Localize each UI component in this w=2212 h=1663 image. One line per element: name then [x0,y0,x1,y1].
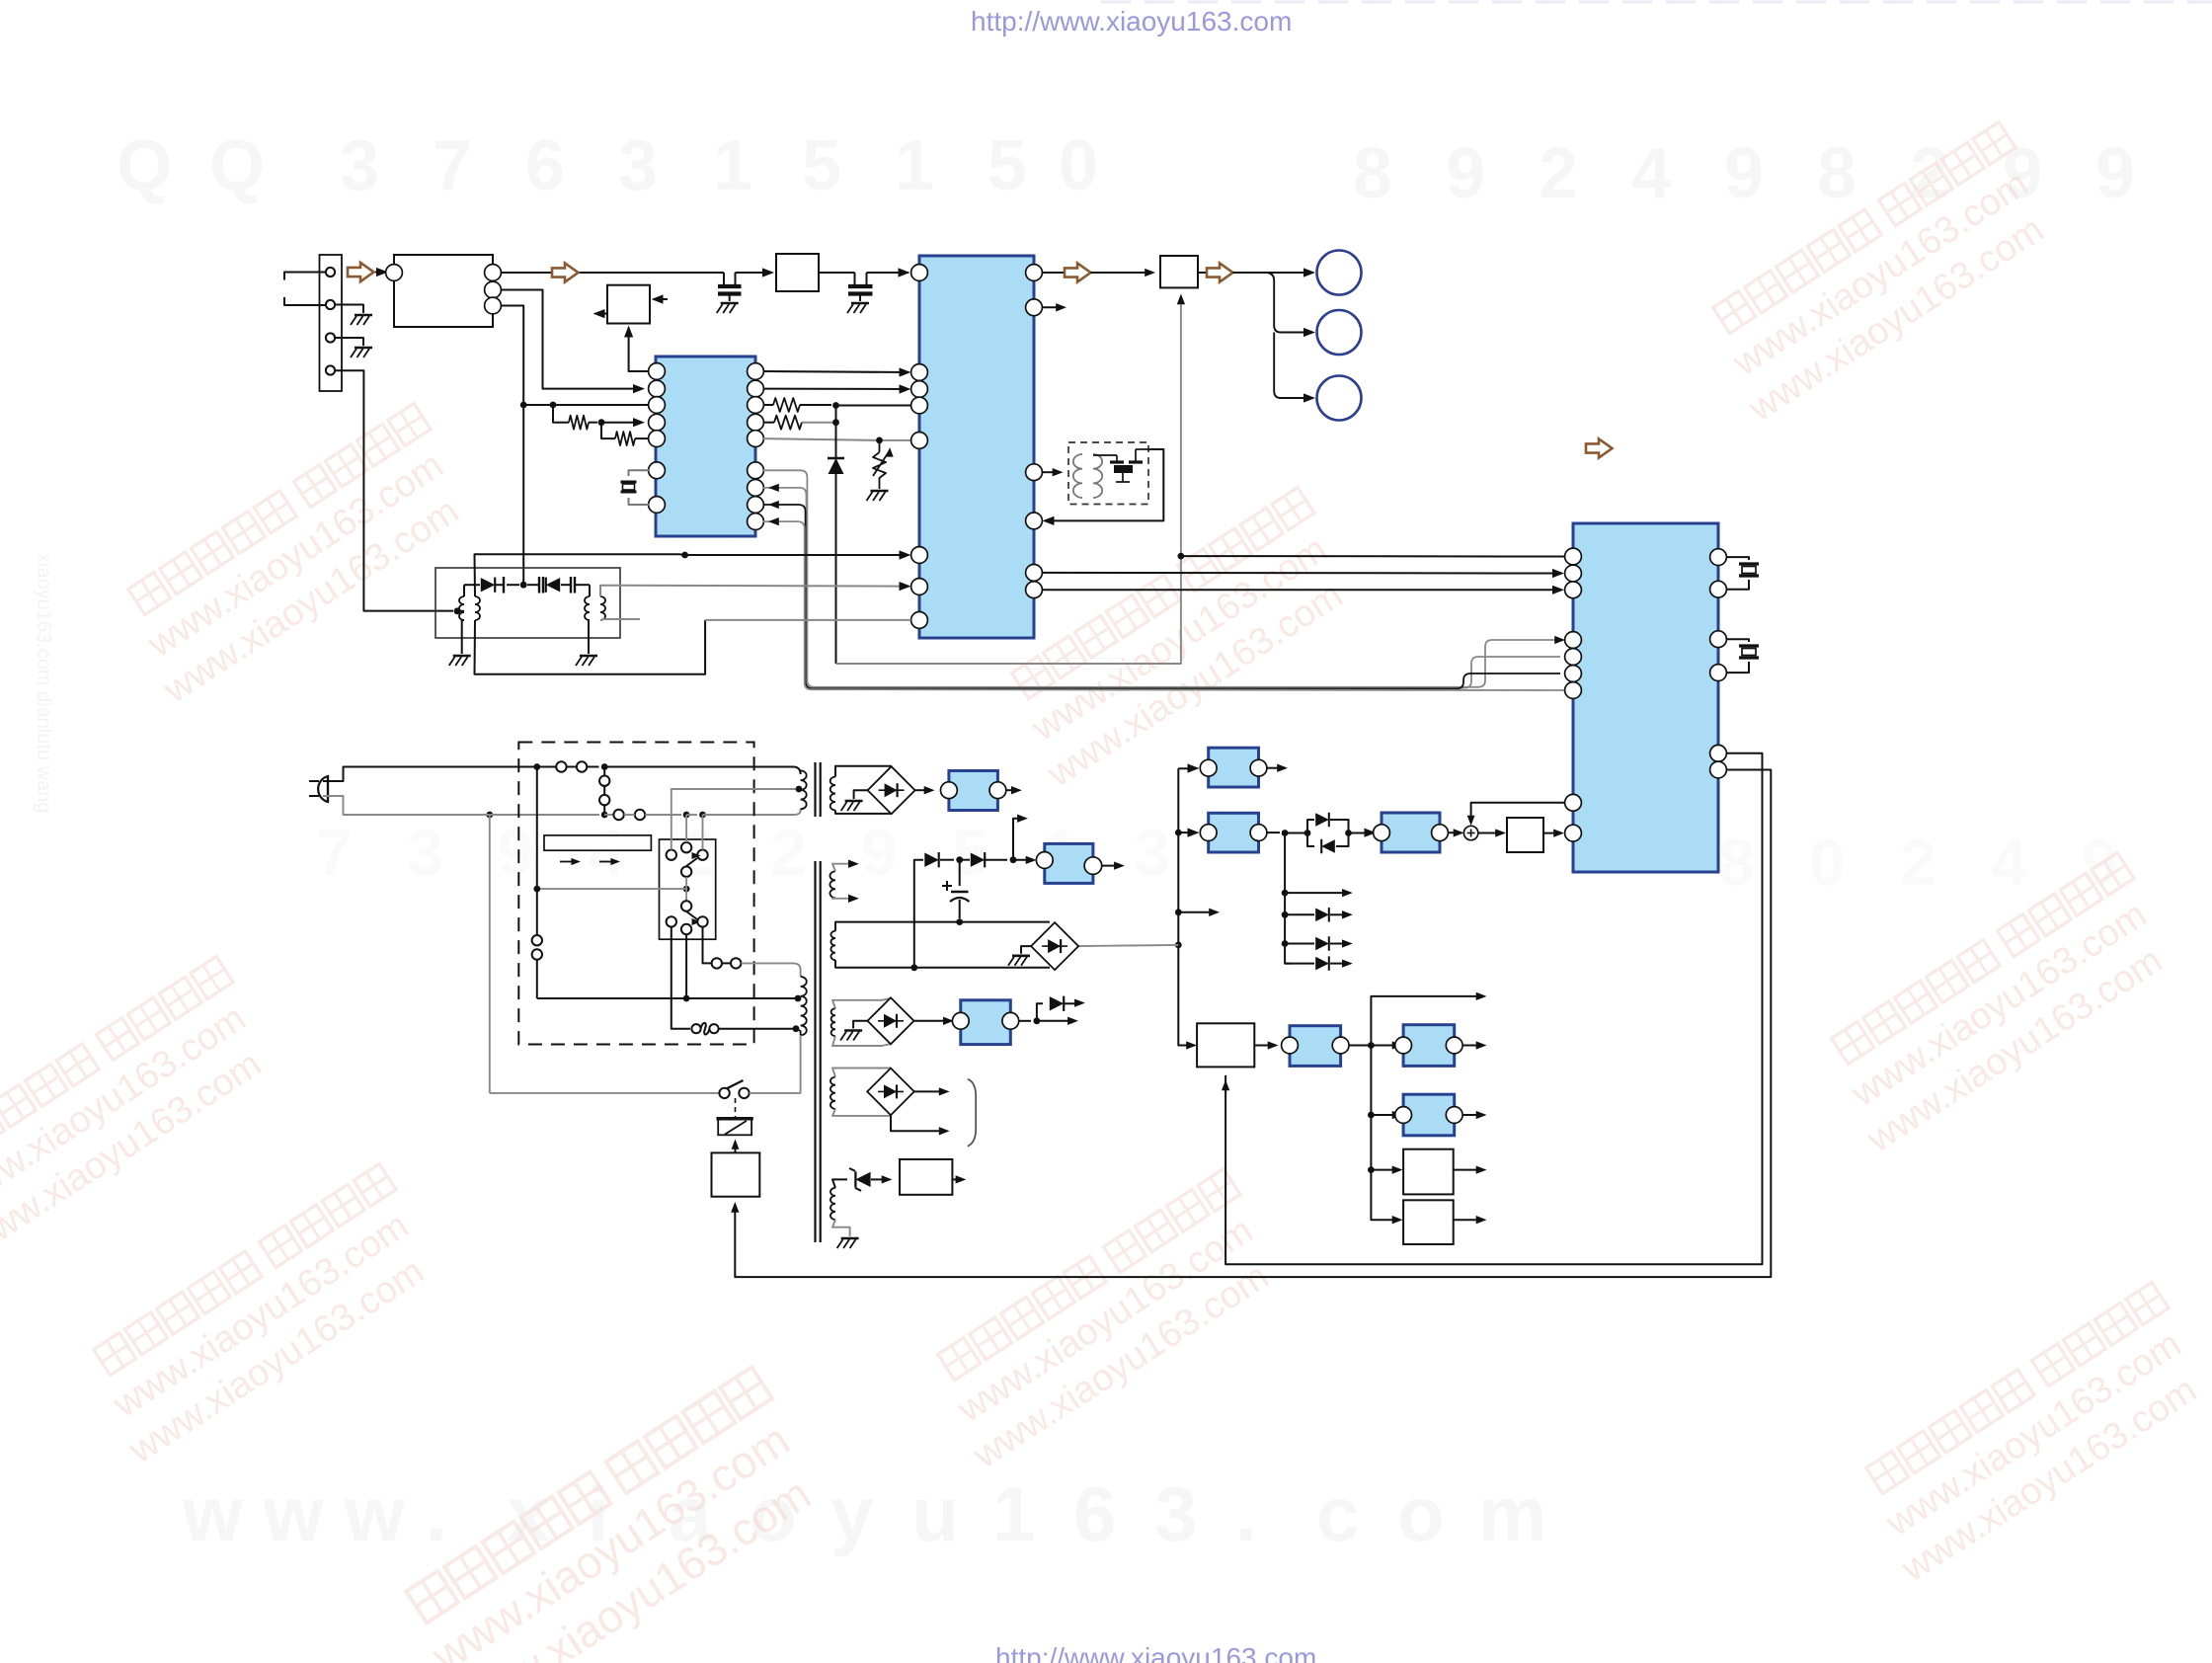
regulator RG4 [1290,1026,1341,1067]
reset feedback arrow [1224,1075,1226,1083]
wire U101 out1 main line [501,272,724,274]
wire U101 out2 to IC2 pin2 [501,290,640,389]
fan branch diode D305 [1285,963,1314,965]
svg-text:5: 5 [987,126,1027,205]
wire bus to IC2 pin3 [523,404,649,406]
selector bottom-right wire [703,927,712,964]
svg-text:.: . [1235,1470,1257,1557]
IC3 feedback loop inner [1225,753,1762,1264]
wire IC2 out2 to IC1 [763,388,906,390]
wire node to RG5 [1371,1045,1396,1047]
IC2 right pins [748,363,764,380]
node y561 [681,552,688,559]
node varistor tap [876,437,883,444]
wire IC1 to IC3 data1 [1042,572,1558,575]
regulator RG7 [949,771,998,811]
gray wire from rectifier [1078,945,1178,946]
T901 sec2 [829,871,835,898]
svg-text:y: y [830,1470,873,1557]
dist branch up arrow [1371,996,1480,1046]
W303 out arrow [1454,1169,1480,1171]
node dist2 [1368,1112,1375,1119]
watermark big digits row [117,126,2135,213]
jack branch wire [1267,273,1309,333]
node primary mid [683,995,690,1002]
regulator RG8 [1045,843,1093,883]
wire BR903 to RG9 [914,1020,948,1022]
watermark pink cluster 3 [991,488,1369,796]
node line2 a [486,812,493,819]
node mute-IC3 [1178,553,1185,560]
watermark pink cluster 2 [73,1164,450,1472]
svg-text:4: 4 [589,816,625,889]
BR904 bottom arrow [891,1115,943,1131]
connector J1 terminal strip [320,255,343,391]
U101 pin out1 [485,265,502,281]
node RG9 out [1034,1017,1041,1024]
ground C102 [851,302,869,305]
svg-text:6: 6 [525,126,565,205]
T901 sec3 [830,931,835,960]
IC1 left pins [911,265,928,281]
switch S901 [556,761,566,771]
watermark middle faint digits [316,816,2118,899]
T901 sec6 [830,1188,835,1220]
svg-text:4: 4 [1631,134,1671,213]
svg-text:xiaoyu163.com dianlutu wang: xiaoyu163.com dianlutu wang [33,553,54,814]
T901 sec4 [831,1008,835,1036]
system control IC3 [1573,523,1718,872]
switch to transformer [750,1035,801,1093]
selector top-left tap wire [671,789,796,850]
bridge BR902 [1031,922,1078,970]
U103 out arrow left [598,313,607,315]
node dist3 [1368,1166,1375,1173]
wire IC2 pin1 to U103 [629,329,649,371]
svg-text:8: 8 [1817,134,1856,213]
wire U102 to C102 [819,272,855,274]
resistor R103 IC2 out3 [763,404,773,406]
resistor R104 IC2 out4 [763,422,774,424]
antenna lead 1 [284,273,326,280]
node line1 selector [533,886,540,893]
node line1 a [533,763,540,770]
watermark pink cluster 4 [917,1169,1295,1477]
dist vertical [1371,1046,1396,1221]
ground RV101 [871,490,889,493]
T901 primary lower [801,977,807,1035]
T103 coils [1073,454,1082,498]
capacitor C901 [959,860,961,886]
diode D903 branch [1037,1003,1043,1021]
node bus stub [1175,909,1182,915]
U103 in arrow right [656,298,668,300]
T102 secondary to IC1 gray wire [600,586,906,596]
wire J1 pin4 to AM loop tap [335,370,453,610]
dashed voltage selector box [518,743,753,1045]
svg-text:m: m [1478,1470,1546,1557]
bus arrowhead into IC3 [1554,636,1565,644]
sec6 ground [832,1220,850,1236]
selector contacts bottom [667,916,676,926]
wire IC2 out1 to IC1 [763,371,906,372]
converter box W304 [1403,1200,1454,1244]
svg-text:2: 2 [770,816,807,889]
watermark pink cluster 7 [1846,1283,2212,1591]
watermark pink cluster 1 [108,404,485,712]
svg-text:1: 1 [713,126,752,205]
node line2 b [601,812,608,819]
RG1 out arrow [1267,767,1281,769]
svg-text:w: w [182,1470,243,1557]
zener D904 [855,1172,870,1187]
wire R101 to IC2 pin4 [601,422,640,424]
regulator RG9 [961,1000,1011,1045]
node sec3 bottom [910,964,917,971]
svg-text:9: 9 [2095,134,2135,213]
svg-text:.: . [426,1470,447,1557]
diode D901 [924,853,938,867]
gray wire R104 to diode rail [802,422,836,424]
gray wire to power switch [490,1092,720,1094]
wire bus to reg2 [1178,831,1193,833]
relay link dashed [735,1098,737,1117]
wire RG4 to node [1349,1045,1371,1047]
audio jack L [1317,251,1362,295]
node primary bottom [793,1025,800,1032]
AGC block U103 [607,285,650,324]
feedback loop to IC1 pin [1047,449,1163,520]
signal arrow A5 [1586,438,1613,457]
watermark pink cluster 6 [1811,853,2188,1161]
node R102 tap [598,419,605,426]
svg-text:2: 2 [1539,134,1578,213]
RG6 out arrow [1462,1114,1480,1116]
svg-text:http://www.xiaoyu163.com: http://www.xiaoyu163.com [971,6,1292,37]
ground C101 [721,302,739,305]
loop filter box W301 [1507,818,1543,852]
FM transformer T102 [585,596,590,620]
wire summing to filter box [1478,832,1500,834]
svg-text:2: 2 [1900,826,1936,899]
svg-text:9: 9 [1724,134,1764,213]
AM antenna filter box outline [435,568,620,638]
wire node to W303 [1371,1169,1396,1171]
diode D902 [971,853,985,867]
wire node to IC3 pin1 [1181,555,1564,557]
T101 tap node [454,607,461,614]
wire to reg3 [1349,832,1371,834]
node bus reg2 [1175,830,1182,836]
selector arm 2 [681,901,691,911]
wire corner to W304 [1392,1216,1403,1224]
wire W302 to RG4 [1254,1045,1272,1047]
resistor R101 [553,405,569,423]
watermark pink cluster 8 [386,1367,837,1663]
IC3 left pins [1565,548,1582,565]
svg-text:5: 5 [952,816,988,889]
feedthrough capacitor C102 [854,273,856,284]
svg-text:5: 5 [802,126,841,205]
node diode rail mid [832,419,839,426]
selector arrows [560,861,576,863]
node filter mid [520,582,527,589]
T101 primary ground [462,620,464,654]
resistor R102 [601,423,615,438]
primary feed line [537,997,798,999]
node diode rail top [832,402,839,409]
output mute box U104 [1160,256,1198,287]
svg-text:http://www.xiaoyu163.com: http://www.xiaoyu163.com [995,1642,1316,1663]
T901 primary upper [801,770,807,809]
Q101 transistor [1093,454,1117,456]
svg-text:3: 3 [407,816,443,889]
antiparallel diodes D301 D302 [1307,820,1314,833]
svg-text:0: 0 [1809,826,1846,899]
wire bus top to reg1 [1178,767,1193,769]
fan branch diode D304 [1285,943,1314,945]
svg-text:c: c [1316,1470,1359,1557]
tuning PLL IC2 [656,356,755,536]
node chain right [1010,856,1017,863]
regulator RG1 [1209,748,1259,787]
svg-text:o: o [1397,1470,1445,1557]
switch S904 [532,935,542,945]
diode fan vertical [1285,833,1292,964]
bridge BR904 [867,1069,914,1116]
RG5 out arrow [1462,1045,1480,1047]
svg-text:3: 3 [340,126,379,205]
node dist [1368,1042,1375,1049]
wire BR901 to RG7 [915,789,928,791]
svg-text:9: 9 [861,816,898,889]
ground at J1 pin2 [335,305,363,314]
crystal X301 [1726,557,1749,560]
selector top wires from line2 [685,815,687,842]
IC3 right pins [1710,549,1727,566]
node chain mid [956,856,963,863]
T102 primary ground [589,620,590,654]
wire to jack 1 [1233,272,1310,274]
T901 sec5 [830,1077,835,1109]
wire W301 to IC3 [1543,832,1558,834]
switch S905 [712,958,722,968]
svg-text:9: 9 [2082,826,2118,899]
chain branch up arrow [1013,819,1021,860]
svg-text:3: 3 [618,126,658,205]
B+ bus vertical [1178,768,1191,1045]
wire IC1 to det coil [1042,471,1058,473]
wire IC1 to IC3 data2 [1042,589,1558,591]
bridge BR901 [891,765,893,768]
IC3 feedback loop outer [735,770,1771,1278]
bus arrowheads into IC2 [768,484,779,492]
gray line2 drop [489,815,491,1093]
svg-text:Q: Q [117,126,172,205]
node on pin3 bus [520,402,527,409]
bridge BR903 [868,997,914,1044]
fuse F901 [691,1024,700,1033]
T102 secondary stub [600,619,640,620]
svg-text:9: 9 [498,816,534,889]
node R101 tap [550,402,557,409]
crystal X101 [629,470,650,476]
gray wire to selector [537,888,686,890]
diode D103 [546,578,560,592]
detector dashed box T103 [1068,442,1148,505]
RG9 out arrow [1037,1020,1071,1022]
W304 out arrow [1454,1219,1480,1221]
diode chain vertical [914,860,923,968]
node line2 d [699,812,706,819]
BR901 ground [854,790,868,799]
relay drive arrow [735,1144,737,1152]
group bracket [968,1079,976,1147]
svg-text:0: 0 [1059,126,1098,205]
T901 core lower [814,861,816,1242]
tuner block U101 [394,255,493,327]
wire chain to RG8 [1013,859,1030,861]
AM loop transformer T101 [459,596,464,620]
svg-text:7: 7 [316,816,353,889]
watermark pink cluster 9 [0,957,287,1265]
selector contacts top [667,850,676,860]
signal arrow A4 [1198,272,1207,274]
relay RY901 [718,1119,751,1136]
watermark top edge dashes [1101,1,2212,4]
U101 pin in [386,265,403,281]
signal arrow A3 [1042,272,1065,274]
regulator RG3 [1382,813,1440,852]
node line2 c [683,812,690,819]
audio jack SW [1317,376,1362,421]
BR902 ground [1021,946,1031,954]
node bus supply in [1175,942,1182,949]
U101 pin out3 [485,297,502,314]
BR903 ground [853,1021,867,1029]
audio jack R [1317,310,1362,355]
node D301 right [1345,830,1352,836]
converter box W303 [1403,1149,1454,1195]
feedthrough capacitor C101 [723,273,725,284]
svg-text:3: 3 [1134,816,1170,889]
RG8 out arrow [1102,865,1118,867]
svg-text:4: 4 [1991,826,2027,899]
wire C101 to U102 [736,272,766,274]
wire R102 to IC2 pin5 [635,437,649,439]
ground at J1 pin3 [335,338,363,346]
regulator RG2 [1209,813,1259,852]
BR904 out arrow [914,1090,943,1092]
selector arm 1 [681,867,691,877]
sec2 stub bottom [832,897,852,900]
node D301 branch [1304,830,1311,836]
wire RG9 out [1019,1020,1031,1022]
svg-text:8: 8 [1353,134,1392,213]
node C901 bottom [956,918,963,925]
antenna lead 2 [284,297,326,305]
svg-text:7: 7 [433,126,472,205]
AC plug P901 [318,776,328,802]
svg-text:9: 9 [1446,134,1485,213]
IC1 out stub arrow [1042,306,1060,308]
signal arrow A1 [348,263,374,281]
protector box W905 [900,1159,952,1195]
diode D102 [463,585,465,596]
T101 secondary bottom wire to IC1 [475,620,706,674]
wire C102 to IC1 [867,272,909,274]
node line1 b [601,763,608,770]
IF/demod IC1 [919,256,1034,638]
regulator RG5 [1403,1025,1455,1067]
T901 core upper [814,762,816,817]
wire RG2 to diode pair [1267,831,1280,833]
filter block U102 [776,254,819,291]
node fan1 [1282,890,1289,897]
node fan3 [1282,940,1289,947]
plug bottom lead [323,796,485,815]
node fan2 [1282,911,1289,918]
voltage selector switch block [660,839,716,939]
feedback wire IC3 to summing [1471,803,1565,822]
reset box W302 [1197,1023,1254,1067]
svg-text:3: 3 [1154,1470,1197,1557]
wire RG3 to summing [1448,831,1458,833]
relay driver box W906 [712,1152,760,1196]
svg-text:w: w [344,1470,405,1557]
W905 out arrow [952,1178,960,1180]
sec2 stub top [832,864,852,872]
summing junction [1463,826,1477,839]
capacitor C104 [527,584,539,586]
wire line1 node down [536,767,538,890]
varistor RV101 [879,440,881,452]
T101 secondary top wire to IC1 [475,554,680,596]
gray wire IC2 pin5 row [763,438,875,440]
capacitor C105 [561,584,571,586]
IC2 lower bus wires to IC3 [763,470,1560,687]
svg-text:8: 8 [1718,826,1755,899]
RG7 out arrow [1006,789,1015,791]
IC2 left pins [649,363,666,380]
selector bottom-left wire to fuse [671,927,690,1029]
crystal X302 [1726,639,1749,642]
mute control vertical [836,297,1181,664]
watermark pink cluster 5 [1693,122,2070,431]
T901 sec1 [830,777,835,811]
wire node to RG6 [1371,1114,1396,1116]
IC1 right pins [1026,265,1043,281]
svg-text:w: w [263,1470,324,1557]
selector label box [544,835,651,850]
diode D101 on rail [835,406,837,665]
bus stub arrow [1178,911,1214,913]
wire U101 out3 down to filter [501,306,523,586]
svg-text:u: u [911,1470,959,1557]
selector mid node [683,886,690,893]
watermark bottom big text [182,1470,1546,1557]
wire to IC1 pin [836,405,911,407]
fan branch diode D303 [1285,913,1314,915]
wire A1 to U101 [375,272,387,274]
svg-text:1: 1 [895,126,934,205]
plug top lead [323,767,537,782]
U101 pin out2 [485,281,502,298]
svg-text:6: 6 [1073,1470,1116,1557]
power switch S906 [719,1088,729,1098]
fan branch 1 [1285,892,1346,894]
regulator RG6 [1403,1094,1455,1136]
